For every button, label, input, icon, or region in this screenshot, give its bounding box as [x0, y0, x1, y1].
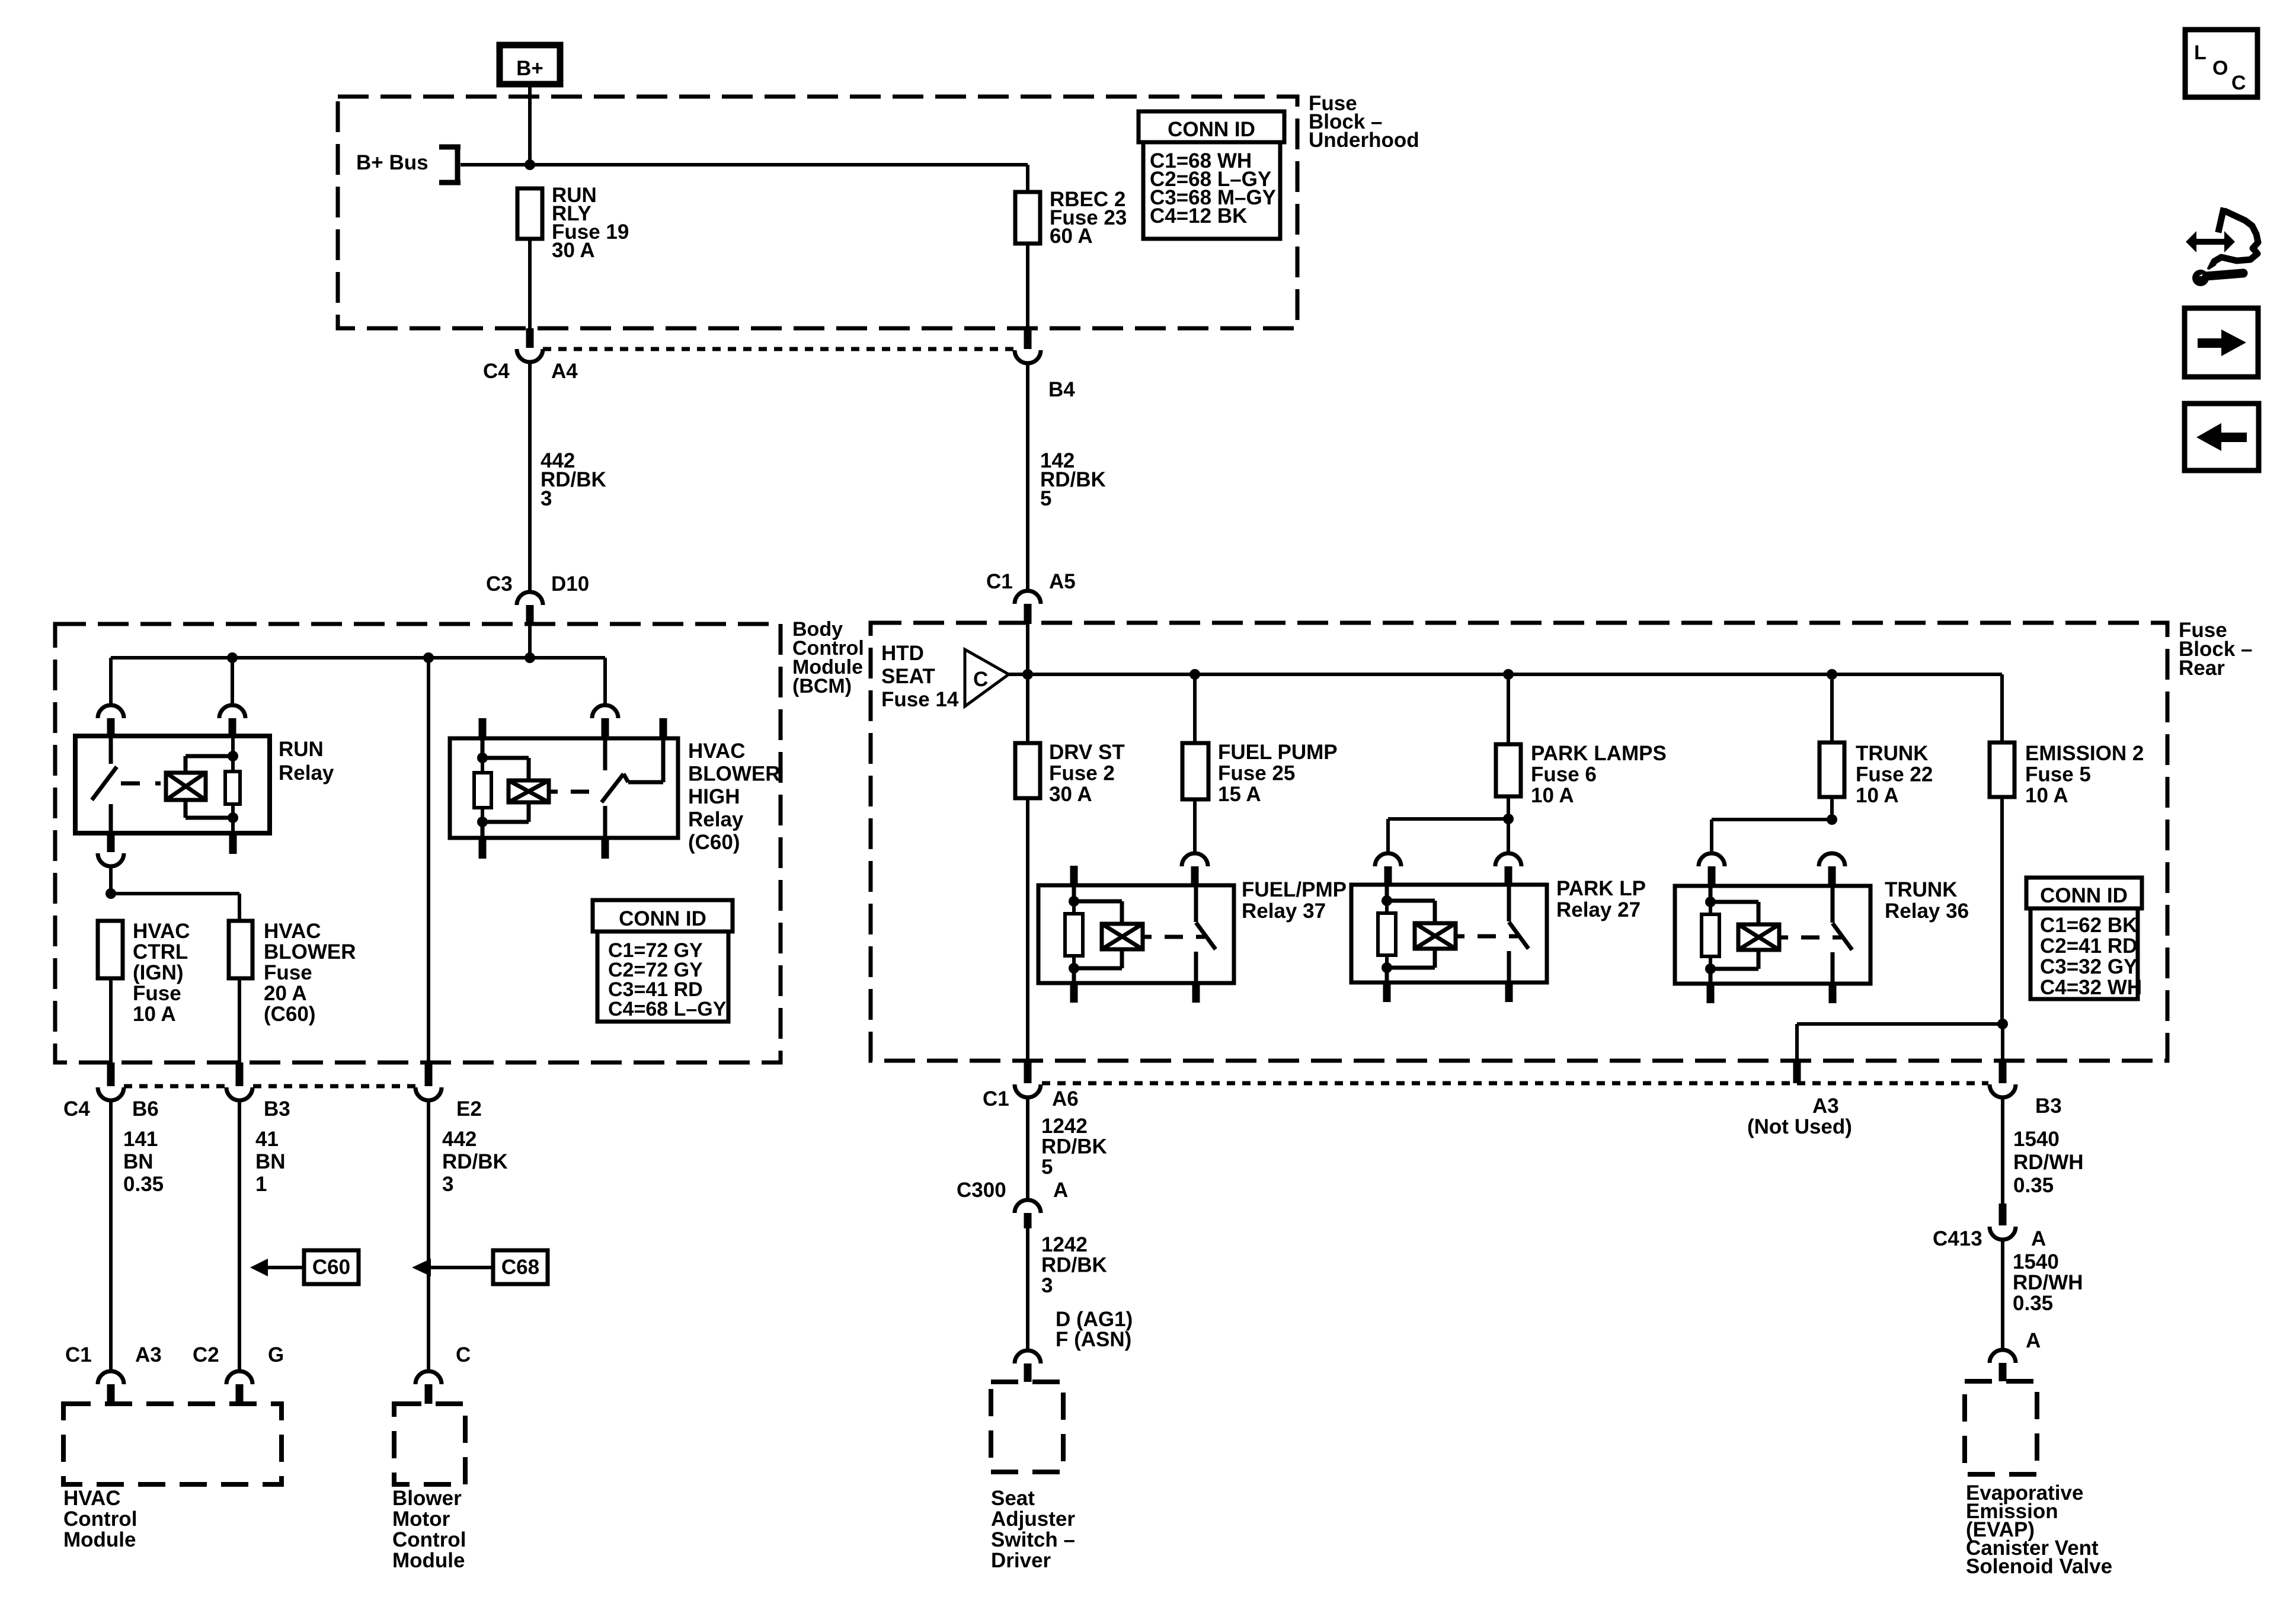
svg-text:C4: C4: [63, 1097, 90, 1121]
svg-text:C3: C3: [486, 572, 513, 596]
svg-text:(IGN): (IGN): [133, 961, 184, 984]
svg-text:TRUNK: TRUNK: [1856, 742, 1928, 765]
svg-text:Fuse 2: Fuse 2: [1049, 762, 1115, 785]
svg-text:Relay: Relay: [279, 761, 334, 785]
svg-text:0.35: 0.35: [123, 1173, 164, 1196]
svg-text:0.35: 0.35: [2013, 1292, 2053, 1315]
svg-text:B4: B4: [1048, 378, 1075, 401]
svg-text:1540: 1540: [2013, 1128, 2060, 1151]
svg-text:TRUNK: TRUNK: [1885, 878, 1957, 901]
svg-text:BLOWER: BLOWER: [264, 940, 356, 964]
svg-text:HVAC: HVAC: [688, 740, 746, 763]
svg-text:41: 41: [255, 1128, 279, 1151]
svg-text:RD/WH: RD/WH: [2013, 1151, 2084, 1174]
svg-text:3: 3: [1041, 1274, 1053, 1297]
svg-text:3: 3: [442, 1173, 453, 1196]
svg-text:O: O: [2212, 57, 2228, 79]
svg-text:Fuse 22: Fuse 22: [1856, 763, 1933, 786]
svg-text:HTD: HTD: [881, 642, 924, 665]
svg-text:CTRL: CTRL: [133, 940, 188, 964]
svg-text:C1=62 BK: C1=62 BK: [2040, 914, 2137, 937]
svg-text:(BCM): (BCM): [792, 675, 852, 697]
svg-text:C300: C300: [957, 1179, 1006, 1202]
svg-text:C4=32 WH: C4=32 WH: [2040, 976, 2142, 999]
svg-text:PARK LP: PARK LP: [1556, 877, 1646, 900]
svg-text:Motor: Motor: [392, 1507, 450, 1531]
svg-text:SEAT: SEAT: [881, 665, 935, 688]
svg-text:A5: A5: [1049, 570, 1076, 593]
svg-text:RD/BK: RD/BK: [1041, 1135, 1107, 1158]
svg-text:RD/BK: RD/BK: [1041, 1254, 1107, 1277]
svg-text:20 A: 20 A: [264, 982, 307, 1005]
svg-text:FUEL/PMP: FUEL/PMP: [1242, 878, 1347, 901]
svg-text:Adjuster: Adjuster: [991, 1507, 1075, 1531]
svg-text:C1: C1: [65, 1343, 92, 1366]
svg-text:1: 1: [255, 1173, 267, 1196]
svg-text:B6: B6: [132, 1097, 159, 1121]
svg-text:0.35: 0.35: [2013, 1174, 2054, 1197]
svg-text:C1: C1: [986, 570, 1013, 593]
svg-text:Control: Control: [392, 1528, 466, 1551]
svg-text:RD/WH: RD/WH: [2013, 1271, 2083, 1294]
svg-text:Fuse 14: Fuse 14: [881, 688, 959, 711]
svg-text:Module: Module: [392, 1549, 465, 1572]
svg-text:(C60): (C60): [688, 831, 740, 854]
svg-text:C4: C4: [483, 360, 510, 383]
svg-text:A3: A3: [1812, 1094, 1839, 1118]
svg-text:CONN ID: CONN ID: [1168, 118, 1255, 141]
svg-text:BN: BN: [255, 1150, 286, 1173]
svg-text:Fuse: Fuse: [264, 961, 312, 984]
svg-text:G: G: [268, 1343, 284, 1366]
svg-text:30 A: 30 A: [552, 239, 595, 262]
svg-text:Fuse 5: Fuse 5: [2025, 763, 2091, 786]
svg-text:Seat: Seat: [991, 1487, 1035, 1510]
svg-text:PARK LAMPS: PARK LAMPS: [1531, 742, 1667, 765]
svg-text:C60: C60: [312, 1256, 350, 1279]
svg-text:RUN: RUN: [279, 738, 324, 761]
svg-text:A3: A3: [135, 1343, 162, 1366]
svg-text:F (ASN): F (ASN): [1056, 1328, 1131, 1351]
svg-text:CONN ID: CONN ID: [619, 907, 706, 930]
svg-text:B3: B3: [264, 1097, 290, 1121]
svg-text:Fuse 25: Fuse 25: [1218, 762, 1295, 785]
svg-text:10 A: 10 A: [1531, 784, 1574, 807]
svg-text:HVAC: HVAC: [63, 1487, 121, 1510]
svg-text:C4=12 BK: C4=12 BK: [1150, 204, 1247, 228]
svg-text:Relay 27: Relay 27: [1556, 898, 1641, 921]
svg-text:C413: C413: [1933, 1227, 1982, 1250]
svg-text:B+: B+: [516, 57, 543, 80]
svg-text:1540: 1540: [2013, 1250, 2059, 1273]
svg-text:Relay 36: Relay 36: [1885, 900, 1969, 923]
svg-text:10 A: 10 A: [1856, 784, 1899, 807]
svg-text:A: A: [1053, 1179, 1068, 1202]
svg-text:1242: 1242: [1041, 1233, 1088, 1256]
svg-text:10 A: 10 A: [2025, 784, 2068, 807]
svg-text:Driver: Driver: [991, 1549, 1051, 1572]
svg-text:Blower: Blower: [392, 1487, 462, 1510]
svg-text:30 A: 30 A: [1049, 783, 1092, 806]
svg-text:D10: D10: [551, 572, 589, 596]
svg-text:141: 141: [123, 1128, 158, 1151]
svg-text:Fuse 6: Fuse 6: [1531, 763, 1597, 786]
svg-text:HVAC: HVAC: [133, 920, 190, 943]
svg-text:HIGH: HIGH: [688, 785, 740, 808]
svg-text:Control: Control: [63, 1507, 137, 1531]
svg-text:C: C: [456, 1343, 471, 1366]
svg-text:C3=32 GY: C3=32 GY: [2040, 955, 2137, 978]
svg-text:(C60): (C60): [264, 1003, 316, 1026]
svg-text:Fuse: Fuse: [133, 982, 181, 1005]
svg-text:A6: A6: [1052, 1087, 1079, 1110]
svg-text:Rear: Rear: [2179, 657, 2225, 680]
svg-text:E2: E2: [456, 1097, 482, 1121]
svg-text:C4=68 L–GY: C4=68 L–GY: [608, 998, 727, 1020]
svg-text:5: 5: [1041, 1156, 1053, 1179]
svg-text:Relay 37: Relay 37: [1242, 900, 1326, 923]
svg-text:60 A: 60 A: [1050, 225, 1093, 248]
svg-text:5: 5: [1040, 487, 1051, 510]
svg-text:B+ Bus: B+ Bus: [356, 151, 428, 174]
svg-text:Module: Module: [63, 1528, 136, 1551]
svg-text:HVAC: HVAC: [264, 920, 321, 943]
svg-text:C68: C68: [501, 1256, 539, 1279]
svg-text:A4: A4: [551, 360, 578, 383]
svg-text:1242: 1242: [1041, 1115, 1088, 1138]
svg-text:BN: BN: [123, 1150, 154, 1173]
svg-text:Switch –: Switch –: [991, 1528, 1075, 1551]
svg-text:DRV ST: DRV ST: [1049, 741, 1125, 764]
svg-text:C1: C1: [983, 1087, 1009, 1110]
svg-text:A: A: [2031, 1227, 2046, 1250]
svg-text:FUEL PUMP: FUEL PUMP: [1218, 741, 1338, 764]
svg-text:C: C: [973, 668, 988, 691]
svg-text:Solenoid Valve: Solenoid Valve: [1966, 1555, 2112, 1578]
svg-text:L: L: [2194, 41, 2207, 64]
svg-text:Underhood: Underhood: [1309, 129, 1419, 152]
svg-text:15 A: 15 A: [1218, 783, 1261, 806]
svg-text:RD/BK: RD/BK: [442, 1150, 508, 1173]
svg-text:EMISSION 2: EMISSION 2: [2025, 742, 2144, 765]
svg-text:BLOWER: BLOWER: [688, 763, 781, 786]
svg-text:10 A: 10 A: [133, 1003, 176, 1026]
svg-text:CONN ID: CONN ID: [2040, 884, 2128, 907]
svg-text:C2=41 RD: C2=41 RD: [2040, 934, 2137, 958]
svg-text:442: 442: [442, 1128, 477, 1151]
svg-text:A: A: [2026, 1329, 2041, 1352]
svg-text:B3: B3: [2035, 1094, 2062, 1118]
svg-text:C2: C2: [193, 1343, 219, 1366]
svg-text:C: C: [2231, 72, 2246, 94]
svg-text:(Not Used): (Not Used): [1747, 1115, 1852, 1138]
svg-text:3: 3: [541, 487, 552, 510]
svg-text:Relay: Relay: [688, 808, 744, 831]
